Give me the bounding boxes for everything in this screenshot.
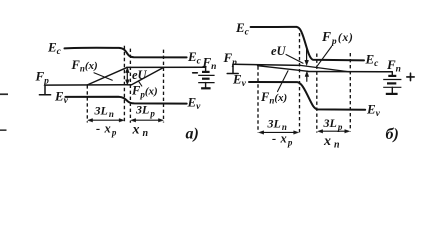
wire E_v band line (diagram a) <box>65 97 186 104</box>
svg-text:Ev: Ev <box>232 72 247 90</box>
scan margin mark upper <box>0 93 8 95</box>
svg-text:Fn: Fn <box>202 55 217 73</box>
pointer from F_n(x) label (diagram b) <box>278 71 289 92</box>
left contact terminal (diagram b) <box>227 64 238 73</box>
wire E_c band line (diagram a) <box>65 48 187 58</box>
wire F_p quasi-Fermi level line (diagram a) <box>45 84 132 86</box>
dimension arrow 3L_n span (diagram a) <box>88 119 124 122</box>
svg-text:Ec: Ec <box>187 49 202 67</box>
svg-text:- xp: - xp <box>96 122 117 138</box>
wire E_c band line (diagram b) <box>251 27 364 61</box>
battery B2 (diagram b) <box>383 72 401 94</box>
svg-text:Fp(x): Fp(x) <box>131 84 158 100</box>
svg-text:Ev: Ev <box>366 102 381 120</box>
wire F_n(x) sloped quasi-Fermi level (diagram a) <box>87 68 126 85</box>
dimension arrow 3L_p span (diagram a) <box>131 119 164 122</box>
svg-text:eU: eU <box>271 44 287 58</box>
svg-text:Fn(x): Fn(x) <box>71 58 98 74</box>
node -x_p dashed boundary (diagram b) <box>299 33 301 133</box>
svg-text:3Lp: 3Lp <box>135 103 155 119</box>
minus sign of battery B1 (diagram a) <box>193 72 198 74</box>
svg-text:Fp(x): Fp(x) <box>321 29 354 47</box>
left contact terminal (diagram a) <box>39 85 50 95</box>
wire E_v band line (diagram b) <box>249 82 365 110</box>
wire F_n(x) sloped quasi-Fermi level (diagram b) <box>258 66 309 72</box>
plus sign of battery B2 (diagram b) <box>407 73 414 80</box>
pointer from F_p(x) label (diagram a) <box>139 81 142 86</box>
eU double arrow (diagram a) <box>126 68 130 85</box>
scan margin mark lower <box>0 129 7 131</box>
svg-text:Fn(x): Fn(x) <box>260 90 287 106</box>
node 3L_n dashed boundary (diagram a) <box>86 85 88 122</box>
svg-text:Fp: Fp <box>223 50 238 68</box>
svg-text:Fn: Fn <box>386 57 401 75</box>
eU upper down-arrow (diagram b) <box>305 49 309 66</box>
wire F_n level line (diagram a) <box>127 66 206 68</box>
dimension arrow 3L_p span (diagram b) <box>318 130 350 133</box>
pointer from F_p(x) label (diagram b) <box>317 47 332 67</box>
svg-text:Ev: Ev <box>187 95 202 113</box>
eU lower up-arrow (diagram b) <box>305 72 309 82</box>
svg-text:а): а) <box>186 126 199 143</box>
svg-text:Ec: Ec <box>47 40 62 58</box>
pointer from F_n(x) label (diagram a) <box>94 73 112 80</box>
svg-text:3Ln: 3Ln <box>94 104 114 120</box>
wire F_p(x) sloped quasi-Fermi level (diagram b) <box>300 65 350 72</box>
node 3L_p dashed boundary (diagram b) <box>349 53 351 132</box>
wire F_p(x) sloped quasi-Fermi level (diagram a) <box>132 68 164 85</box>
wire F_n level line (diagram b) <box>307 71 392 73</box>
node x_n dashed boundary (diagram b) <box>316 54 318 133</box>
svg-text:3Ln: 3Ln <box>267 117 287 133</box>
svg-text:- xp: - xp <box>272 132 293 148</box>
svg-text:3Lp: 3Lp <box>323 116 343 132</box>
svg-text:Ec: Ec <box>365 52 380 70</box>
battery B1 (diagram a) <box>198 67 214 88</box>
svg-text:xn: xn <box>132 123 149 140</box>
svg-text:xn: xn <box>323 134 340 151</box>
node x_n dashed boundary (diagram a) <box>129 49 131 123</box>
pointer from eU label (diagram b) <box>286 55 303 64</box>
svg-text:б): б) <box>386 126 399 143</box>
wire F_p quasi-Fermi level line (diagram b) <box>233 64 300 65</box>
svg-text:Fp: Fp <box>35 69 50 87</box>
node 3L_n dashed boundary (diagram b) <box>257 66 259 132</box>
node 3L_p dashed boundary (diagram a) <box>163 50 165 123</box>
dimension arrow 3L_n span (diagram b) <box>259 131 299 134</box>
svg-text:Ec: Ec <box>235 20 250 38</box>
node -x_p dashed boundary (diagram a) <box>123 46 125 123</box>
